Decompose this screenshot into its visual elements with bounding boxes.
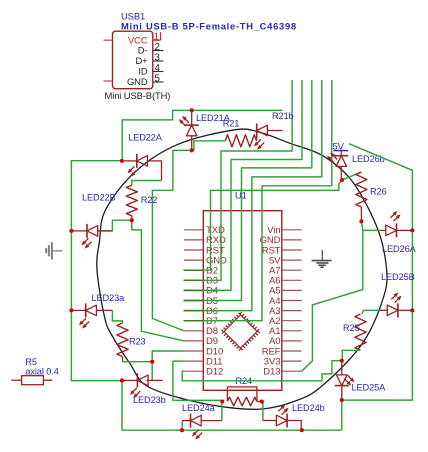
junction LED26b cathode <box>340 178 344 182</box>
svg-text:GND: GND <box>127 76 148 87</box>
junction at LED21A cathode <box>190 148 194 152</box>
svg-text:LED22B: LED22B <box>82 193 116 203</box>
junction at LED21A anode <box>190 108 194 112</box>
wire rail to LED24a <box>182 421 184 431</box>
svg-text:D-: D- <box>138 45 148 56</box>
junction at LED23b anode <box>120 378 124 382</box>
LED LED22B <box>71 230 87 232</box>
U1 right pin Vin <box>282 229 302 231</box>
R21 to LED R21b link <box>256 137 258 141</box>
circle outline <box>97 129 387 409</box>
wire net D10 <box>152 351 184 381</box>
wire LED23a to R23 <box>112 310 122 323</box>
U1 left pin D2 <box>184 269 203 271</box>
svg-text:5V: 5V <box>333 140 345 151</box>
svg-text:D+: D+ <box>135 55 148 66</box>
wire bus2 from top to U1 pin D4 <box>184 80 302 290</box>
svg-text:R5: R5 <box>25 357 37 367</box>
wire LED22A to R22 <box>132 181 162 186</box>
resistor R24 lead frame <box>227 387 257 402</box>
resistor R23 <box>117 323 128 357</box>
junction at LED22B anode <box>69 229 73 233</box>
U1 left pin D5 <box>184 300 203 302</box>
LED23a light arrows <box>77 317 90 330</box>
LED LED21A <box>191 110 193 125</box>
junction rail-LED24b <box>300 428 304 432</box>
wire net D2 from LED26b junction <box>184 180 342 270</box>
junction R26 bottom <box>359 219 363 223</box>
wire right rail down <box>411 230 413 310</box>
U1 left pin TXD <box>184 229 203 231</box>
svg-text:LED25A: LED25A <box>352 382 387 392</box>
LED21A light arrows <box>177 114 190 127</box>
wire from LED22A column to LED21A top <box>122 110 282 160</box>
svg-text:ID: ID <box>138 66 148 77</box>
U1 left pin RXD <box>184 239 203 241</box>
svg-text:R25: R25 <box>343 323 360 333</box>
U1 right pin A3 <box>282 310 302 312</box>
svg-text:Mini USB-B 5P-Female-TH_C46398: Mini USB-B 5P-Female-TH_C46398 <box>121 21 297 32</box>
svg-text:D13: D13 <box>263 367 280 378</box>
USB1 pin 5 stub <box>153 81 164 83</box>
junction LED25A top <box>340 359 344 363</box>
USB1 pin VCC left stub <box>104 39 113 41</box>
svg-text:LED23b: LED23b <box>133 395 166 405</box>
wire left chain vertical <box>71 161 122 381</box>
svg-text:5: 5 <box>155 73 161 84</box>
wire LED23b to bottom rail <box>122 380 342 430</box>
U1 right pin 3V3 <box>282 360 302 362</box>
wire bus4 from top to U1 pin D6 <box>184 80 322 311</box>
USB1 pin 4 stub <box>153 71 164 73</box>
R21b light arrows <box>252 138 265 151</box>
svg-text:LED26b: LED26b <box>352 154 385 164</box>
U1 left pin D3 <box>184 279 203 281</box>
U1 right pin 5V <box>282 259 302 261</box>
wire R25 to LED25A junction <box>342 350 360 360</box>
resistor R21 <box>225 135 256 147</box>
U1 left pin D12 <box>184 370 203 372</box>
LED22B light arrows <box>80 237 93 250</box>
svg-text:2: 2 <box>155 42 160 53</box>
wire LED26b to R26 diagonal <box>342 172 361 180</box>
wire LED25A junction to right rail <box>342 310 413 400</box>
wire net D9 from R22 <box>132 220 184 341</box>
junction R22 bottom <box>130 218 134 222</box>
U1 right pin D13 <box>282 370 302 372</box>
LED LED22A <box>124 160 137 162</box>
U1 left pin GND <box>184 259 203 261</box>
svg-text:LED26A: LED26A <box>382 244 417 254</box>
junction R24 right <box>260 399 264 403</box>
U1 right pin A6 <box>282 279 302 281</box>
wire 5V to right rail diagonal <box>349 144 412 231</box>
ground symbol right <box>321 250 323 260</box>
wire bus3 from top to U1 pin D5 <box>184 80 312 301</box>
wire R22 junction to LED22B <box>99 220 132 231</box>
ground symbol left <box>52 250 63 252</box>
svg-text:R26: R26 <box>370 187 387 197</box>
connector USB1 body <box>113 31 153 88</box>
LED LED24a <box>182 420 190 422</box>
wire net D8 from LED21A cathode <box>152 150 191 330</box>
U1 right pin GND <box>282 239 302 241</box>
resistor R22 <box>126 185 137 216</box>
resistor R24 <box>227 397 257 406</box>
svg-text:LED25B: LED25B <box>381 272 415 282</box>
svg-text:LED23a: LED23a <box>92 293 126 303</box>
U1 left pin D11 <box>184 360 203 362</box>
U1 chip diamond glyph <box>222 313 260 351</box>
U1 left pin D4 <box>184 289 203 291</box>
wire net D11 <box>173 361 222 401</box>
wire LED26A to D13 diagonal <box>302 230 363 371</box>
svg-text:R21b: R21b <box>272 111 294 121</box>
U1 right pin RST <box>282 249 302 251</box>
U1 right pin A1 <box>282 330 302 332</box>
LED LED24b <box>263 420 276 422</box>
LED LED25A <box>341 361 343 375</box>
wire R23 to D10 junction <box>123 361 153 363</box>
svg-text:1: 1 <box>154 31 159 42</box>
U1 right pin A5 <box>282 289 302 291</box>
U1 right pin A7 <box>282 269 302 271</box>
U1 right pin A2 <box>282 320 302 322</box>
svg-text:R22: R22 <box>141 195 158 205</box>
LED25B light arrows <box>390 291 403 304</box>
svg-text:axial 0.4: axial 0.4 <box>25 367 58 377</box>
svg-text:D12: D12 <box>206 367 223 378</box>
U1 left pin D7 <box>184 320 203 322</box>
LED23b light arrows <box>128 386 141 399</box>
wire LED25B to R25 <box>362 310 363 314</box>
U1 right pin REF <box>282 350 302 352</box>
LED LED26b <box>334 156 348 167</box>
LED25A light arrows <box>343 374 356 387</box>
USB1 pin 3 stub <box>153 60 164 62</box>
junction LED25B right <box>410 308 414 312</box>
wire net D12 staircase to LED25A junction <box>182 361 342 381</box>
LED LED23a <box>71 309 85 311</box>
svg-text:LED24b: LED24b <box>292 403 325 413</box>
U1 right pin A0 <box>282 340 302 342</box>
wire R24 to LED24b <box>262 402 263 421</box>
wire overlap D2 stub <box>184 269 204 271</box>
LED24a light arrows <box>190 428 203 441</box>
svg-text:3: 3 <box>155 52 161 63</box>
wire LED24a to R24 junction <box>221 402 223 421</box>
LED22A light arrows <box>126 165 139 178</box>
USB1 pin GND left stub <box>104 80 113 82</box>
LED24b light arrows <box>277 403 290 416</box>
junction R24 left <box>220 399 224 403</box>
LED26b light arrows <box>325 151 338 164</box>
wire R26 to LED26A <box>361 221 381 230</box>
resistor R26 <box>356 172 367 207</box>
LED LED25B <box>363 309 380 311</box>
U1 right pin A4 <box>282 300 302 302</box>
USB1 pin 1 stub <box>153 39 161 41</box>
resistor R5 <box>11 379 21 381</box>
wire rail up to LED25A junction <box>341 400 343 430</box>
junction LED26A right <box>410 228 414 232</box>
U1 left pin D8 <box>184 330 203 332</box>
USB1 pin 2 stub <box>153 50 164 52</box>
junction LED25A bottom <box>340 398 344 402</box>
svg-text:LED22A: LED22A <box>128 132 163 142</box>
junction at LED23a anode <box>69 308 73 312</box>
svg-text:R23: R23 <box>129 337 146 347</box>
LED26A light arrows <box>389 209 402 222</box>
LED LED26A <box>381 229 386 231</box>
svg-text:4: 4 <box>155 63 161 74</box>
wire bus1 from top to U1 pin D3 <box>184 80 292 280</box>
U1 left pin RST <box>184 249 203 251</box>
resistor R25 <box>355 314 366 350</box>
svg-text:R21: R21 <box>223 119 240 129</box>
wire LED21A cathode to R21 <box>192 141 226 151</box>
LED R21b <box>257 124 268 138</box>
U1 left pin D10 <box>184 350 203 352</box>
U1 left pin D9 <box>184 340 203 342</box>
junction D10/R23 <box>150 360 154 364</box>
wire bus5 from top to U1 pin D7 <box>184 80 332 321</box>
junction at LED22A anode <box>120 159 124 163</box>
svg-text:LED24a: LED24a <box>182 403 216 413</box>
IC U1 body <box>203 211 281 391</box>
LED22A lead wrap <box>148 161 162 181</box>
LED LED23b <box>122 379 137 381</box>
svg-text:Mini USB-B(TH): Mini USB-B(TH) <box>105 90 171 101</box>
U1 left pin D6 <box>184 310 203 312</box>
junction rail-LED24a <box>180 428 184 432</box>
